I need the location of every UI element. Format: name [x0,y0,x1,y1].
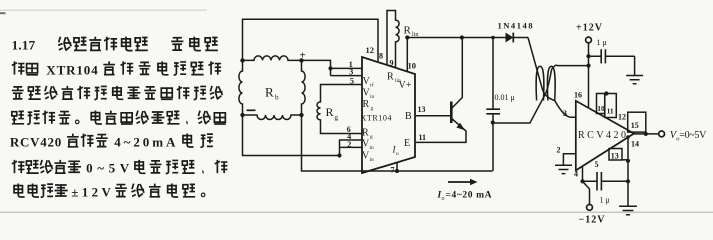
diode D1 1N4148 [506,33,514,43]
svg-text:1 μ: 1 μ [597,38,607,47]
svg-text:b: b [275,94,279,102]
junction pin 10 / V+ rail [405,35,409,39]
svg-text:1N4148: 1N4148 [498,21,533,31]
resistor Rlin loop on pins 8,9 [387,11,399,68]
svg-text:8: 8 [379,52,383,61]
wire: bridge lower-right to return rail [302,115,493,171]
svg-text:V+: V+ [399,80,412,91]
svg-text:13: 13 [418,105,426,114]
twisted pair: lower conductor entering [493,68,553,123]
svg-text:RCV420: RCV420 [578,130,626,141]
wire: top loop from bridge to pin 12 [243,19,379,62]
caption line4: 距离传输。在芯片采集端，采用 [12,111,226,125]
svg-text:rf: rf [370,82,374,89]
svg-text:=4~20 mA: =4~20 mA [446,191,492,201]
svg-text:=0~5V: =0~5V [679,130,707,141]
svg-text:1 μ: 1 μ [600,196,610,205]
caption line2: 利用 XTR104 芯片实现压力传 [12,61,221,77]
junction loop supply tap [586,64,590,68]
scan artifact tick top-left [0,12,6,14]
svg-text:5: 5 [595,160,599,169]
twisted pair: lower exit to pin 3 [555,101,576,118]
transistor Q1 collector [451,38,463,110]
svg-text:2: 2 [557,145,561,154]
svg-text:in: in [370,157,375,163]
svg-text:12: 12 [366,45,375,55]
svg-text:R: R [362,128,369,139]
junction box tops [604,91,608,95]
output wire pin 14 [634,133,658,135]
capacitor C1 leads [492,38,494,172]
svg-text:in: in [370,145,375,151]
svg-text:E: E [404,138,410,149]
pin 7 stub and junction [396,162,398,171]
junction: collector tap dot [460,35,464,39]
current arrow Io=4-20mA [448,181,471,183]
svg-text:R: R [363,99,370,110]
internal resistor box pin 11 [605,94,617,118]
caption line5: RCV420 芯片将 4~20mA 电流 [10,134,213,150]
pin 4 to -12V [583,167,590,204]
junction C2 tap [586,54,590,58]
twisted pair: left twist loop [536,66,544,100]
svg-text:o: o [396,151,399,157]
svg-text:R: R [404,25,412,37]
caption line7: 电电源为 ±12V 的转换电路。 [14,184,205,200]
junction node pins 1-3 [328,66,332,70]
svg-text:10: 10 [597,104,605,113]
junction: filter cap tap [491,36,495,40]
scan artifact faint line top [0,10,207,11]
wire: bridge + to pins 1,3 [302,60,363,75]
svg-text:4: 4 [574,169,578,178]
internal resistor box pin 10 [597,94,605,114]
svg-text:7: 7 [391,166,395,175]
svg-text:11: 11 [607,107,614,116]
wire: bridge - to pins 4,2 [243,115,363,156]
svg-text:13: 13 [611,151,619,160]
svg-text:3: 3 [563,109,567,118]
sensor bridge Rb: bottom winding [243,115,302,120]
wire: +12V to pin 16 [588,43,590,108]
transistor Q1 base bar [450,102,453,124]
svg-text:g: g [371,106,374,112]
svg-text:16: 16 [574,91,582,100]
svg-text:10: 10 [408,61,417,71]
feedback resistor box pin 15 [628,112,646,132]
svg-text:g: g [370,134,373,140]
transistor Q1 base stub from pin 13 [416,115,450,117]
resistor box pin 13 [609,149,622,161]
node: bridge - output [247,109,256,111]
svg-text:3: 3 [349,68,353,77]
sensor bridge Rb: left winding [239,60,243,115]
sensor bridge Rb: top winding [243,56,302,60]
junction ground rail top [626,135,630,139]
capacitor C1 0.01u plates [486,109,500,114]
svg-text:−12V: −12V [579,214,606,225]
junction C1 to line [491,120,495,124]
wire: pin 10 to V+ rail [406,38,408,73]
svg-text:14: 14 [631,140,639,149]
pin 2 to ground [555,154,576,174]
svg-text:R: R [387,72,394,83]
svg-text:XTR104: XTR104 [361,114,392,123]
svg-text:9: 9 [390,59,394,68]
ground rail from near apex [619,137,637,214]
caption paragraph: 1.17 双线变换电路 本电路 [12,37,218,53]
junction pin 7 [395,169,399,173]
capacitor C3 1u at -12V [583,180,629,182]
svg-text:15: 15 [631,121,639,130]
op-amp U1 XTR104 body [362,57,415,173]
scan artifact faint line bottom [0,212,713,213]
junction output feedback [644,132,648,136]
svg-text:+12V: +12V [576,23,603,34]
resistor Rg loop on pins 5,6 [317,85,362,134]
svg-text:R: R [326,105,334,119]
ground at C2 [626,56,643,84]
wire: V+ rail to diode [407,37,505,39]
twisted pair: upper exit to +12V node [553,65,588,67]
sensor bridge Rb: right winding [302,60,306,115]
svg-text:g: g [335,114,339,122]
bridge corner junctions [240,58,303,117]
caption line6: 信号转换为 0~5V 电压输出，供 [12,160,228,176]
transistor Q1 emitter to pin 11 [416,118,466,143]
-12V supply terminal [587,205,593,211]
capacitor C2 1u at +12V [589,55,635,57]
junction C3 to rail [626,179,630,183]
svg-text:in: in [370,94,375,100]
svg-text:11: 11 [419,133,427,142]
svg-text:R: R [265,85,274,100]
svg-text:12: 12 [618,113,626,122]
output terminal circle [659,131,665,137]
svg-text:o: o [442,196,445,202]
twisted pair: right twist loop [547,66,555,100]
op-amp U2 RCV420 body [576,101,634,171]
svg-text:0.01 μ: 0.01 μ [495,93,515,102]
caption line3: 感器双线制标准电流信号的远 [12,86,223,100]
svg-text:B: B [405,111,412,122]
twisted pair: upper conductor entering [528,38,555,101]
junction box13 to rail [626,159,630,163]
junction pin4 C3 [580,179,584,183]
junction node pins 2-4 [337,153,341,157]
